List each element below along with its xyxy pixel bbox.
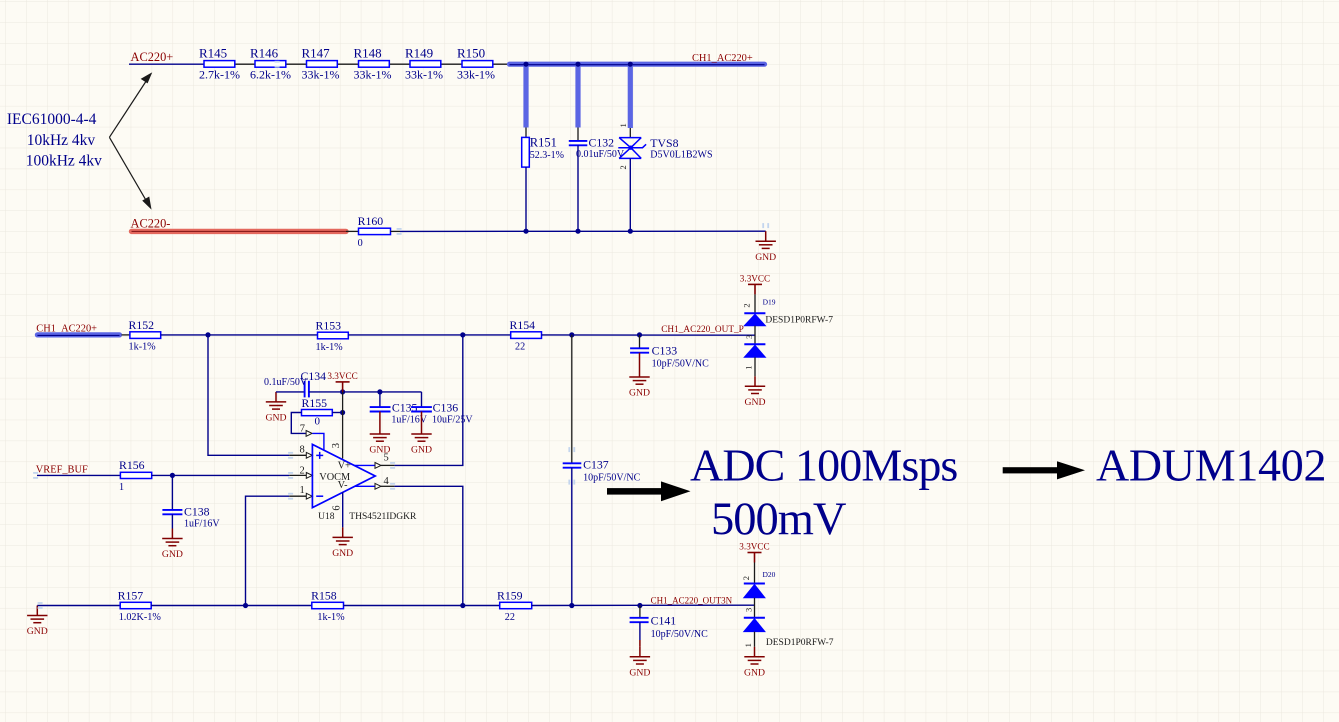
- svg-text:AC220-: AC220-: [131, 217, 171, 231]
- ground GND (C134): [266, 392, 287, 424]
- svg-text:2: 2: [300, 465, 305, 476]
- wire GND to C134: [276, 391, 305, 393]
- svg-text:22: 22: [505, 612, 515, 623]
- resistor R150: [457, 46, 495, 82]
- wire C134 to VCC rail: [309, 391, 422, 393]
- svg-text:10kHz 4kv: 10kHz 4kv: [27, 132, 96, 149]
- junction top rail / R151: [523, 62, 528, 67]
- annotation arrow to ADC: [607, 481, 691, 501]
- svg-text:0.01uF/50V: 0.01uF/50V: [576, 149, 625, 160]
- op-amp U18 triangle: [312, 444, 375, 507]
- arrow to AC220-: [109, 137, 150, 208]
- junction bottom bus / TVS8: [628, 229, 633, 234]
- wire CH1_AC220+ top rail (highlighted): [510, 62, 765, 68]
- wire R151 to bottom bus: [525, 167, 527, 231]
- svg-text:1: 1: [618, 123, 628, 127]
- ground GND (surge bus): [755, 231, 776, 263]
- svg-text:R152: R152: [129, 318, 155, 332]
- wire R154 to D19: [542, 334, 756, 336]
- svg-text:GND: GND: [411, 445, 432, 456]
- svg-text:2: 2: [618, 165, 628, 169]
- svg-text:GND: GND: [629, 388, 650, 399]
- svg-text:CH1_AC220+: CH1_AC220+: [692, 53, 753, 64]
- power 3.3VCC (D20): [739, 542, 769, 563]
- svg-text:4: 4: [384, 476, 390, 487]
- wire thick end to R151: [525, 128, 527, 138]
- svg-text:V+: V+: [338, 460, 351, 471]
- svg-text:52.3-1%: 52.3-1%: [530, 150, 564, 161]
- wire feedback P vertical: [394, 335, 462, 466]
- wire GND to R157: [37, 605, 120, 607]
- resistor R151: [522, 136, 564, 168]
- svg-text:8: 8: [300, 445, 305, 456]
- svg-text:R145: R145: [199, 46, 227, 61]
- wire C133 to GND: [639, 353, 641, 367]
- resistor R145: [199, 46, 240, 82]
- capacitor C133: [630, 348, 649, 352]
- TVS8 labels: [650, 136, 712, 161]
- svg-text:R148: R148: [354, 46, 382, 61]
- wire end mark: [38, 602, 43, 609]
- svg-text:C136: C136: [433, 401, 459, 415]
- svg-text:CH1_AC220_OUT3N: CH1_AC220_OUT3N: [651, 596, 733, 606]
- wire end mark: [762, 223, 769, 228]
- wire C141 to GND (red): [639, 640, 641, 647]
- wire C135 to GND: [379, 412, 381, 425]
- svg-text:GND: GND: [332, 548, 353, 559]
- resistor R155: [302, 396, 333, 428]
- wire TVS8 to bottom bus: [629, 158, 631, 231]
- resistor R152: [129, 318, 161, 353]
- svg-text:6.2k-1%: 6.2k-1%: [250, 67, 291, 81]
- svg-text:0: 0: [358, 238, 363, 249]
- svg-text:R156: R156: [119, 458, 145, 472]
- capacitor C141: [630, 618, 649, 622]
- wire R157 to R158: [151, 605, 312, 607]
- resistor R157: [118, 588, 162, 623]
- capacitor C138 labels: [184, 504, 220, 529]
- wire CH1_AC220+ stub (highlighted): [37, 332, 119, 338]
- capacitor C134 labels: [264, 369, 326, 388]
- wire end mark: [33, 472, 38, 479]
- resistor R148: [354, 46, 392, 82]
- wire junction to C138: [171, 475, 173, 510]
- svg-text:ADUM1402: ADUM1402: [1096, 440, 1326, 491]
- capacitor C141 labels: [651, 613, 709, 640]
- diode D20 upper (to 3.3VCC): [744, 584, 765, 598]
- svg-text:C133: C133: [652, 344, 678, 358]
- wire D19 mid: [754, 326, 756, 344]
- junction bottom bus / C132: [575, 229, 580, 234]
- op-amp minus sign: [316, 495, 323, 497]
- svg-text:D20: D20: [763, 570, 776, 579]
- svg-text:CH1_AC220_OUT_P: CH1_AC220_OUT_P: [661, 325, 744, 335]
- junction pin1 tap: [243, 603, 248, 608]
- svg-text:2: 2: [741, 576, 751, 580]
- svg-text:C138: C138: [184, 504, 210, 518]
- wire tap to op-amp pin 8: [208, 335, 289, 455]
- svg-text:IEC61000-4-4: IEC61000-4-4: [7, 111, 97, 128]
- op-amp plus sign: [316, 452, 323, 459]
- diode D19 lower (from GND): [744, 344, 765, 357]
- svg-text:33k-1%: 33k-1%: [302, 67, 340, 81]
- svg-text:R149: R149: [405, 46, 433, 61]
- junction top rail / C132: [575, 62, 580, 67]
- wire pin 6 to GND: [342, 492, 344, 527]
- pin 2 stub: [289, 474, 306, 476]
- ground GND (C135): [369, 424, 390, 456]
- svg-text:1: 1: [300, 485, 305, 496]
- junction R154/C137: [569, 332, 574, 337]
- svg-text:GND: GND: [266, 413, 287, 424]
- junction top rail / TVS8: [628, 62, 633, 67]
- wire end mark: [288, 452, 293, 459]
- capacitor C132 labels: [576, 135, 625, 160]
- svg-text:1: 1: [744, 365, 754, 369]
- svg-text:D5V0L1B2WS: D5V0L1B2WS: [650, 150, 712, 161]
- capacitor C133 labels: [652, 344, 710, 370]
- svg-text:3.3VCC: 3.3VCC: [327, 371, 357, 381]
- svg-text:VREF_BUF: VREF_BUF: [36, 464, 88, 475]
- junction R156/C138: [170, 473, 175, 478]
- wire R158 to R159: [344, 605, 500, 607]
- svg-text:2: 2: [742, 303, 752, 307]
- svg-text:DESD1P0RFW-7: DESD1P0RFW-7: [766, 638, 834, 648]
- wire AC220- to R160: [346, 230, 359, 232]
- resistor R149: [405, 46, 443, 82]
- wire C137 to bottom row: [571, 468, 573, 606]
- junction VCC/op-amp: [340, 389, 345, 394]
- junction C141 tap: [637, 603, 642, 608]
- junction C137 bottom: [569, 603, 574, 608]
- pin 7 wire (blue): [312, 433, 324, 450]
- wire thick end to C132: [577, 128, 579, 141]
- pin 4 arrow: [375, 483, 381, 489]
- wire end mark: [568, 447, 575, 452]
- wire VCC to D19: [754, 294, 756, 313]
- wire R156 to pin 2: [152, 474, 290, 476]
- svg-text:GND: GND: [745, 397, 766, 408]
- svg-text:1: 1: [119, 482, 124, 493]
- ground GND (C133): [629, 367, 650, 399]
- junction R155/pin3 line: [340, 410, 345, 415]
- pin 1 stub: [289, 495, 306, 497]
- pin 4 wire (blue): [355, 485, 375, 487]
- capacitor C135 labels: [391, 401, 427, 426]
- svg-text:100kHz 4kv: 100kHz 4kv: [26, 153, 102, 170]
- wire C132 to bottom bus: [577, 145, 579, 231]
- svg-text:33k-1%: 33k-1%: [354, 67, 392, 81]
- junction VCC/C135: [377, 389, 382, 394]
- pin 8 stub: [289, 454, 306, 456]
- wire rail to C135: [379, 392, 381, 407]
- wire R159 to D20: [532, 604, 755, 606]
- svg-text:R147: R147: [302, 46, 331, 61]
- capacitor C136 labels: [432, 401, 473, 426]
- capacitor C135: [370, 407, 391, 411]
- wire end mark: [288, 472, 293, 479]
- svg-text:GND: GND: [755, 252, 776, 263]
- svg-text:THS4521IDGKR: THS4521IDGKR: [349, 512, 417, 522]
- ground GND (op-amp pin 6): [332, 527, 353, 559]
- resistor R156: [119, 458, 152, 493]
- wire R154 tap down to C137: [571, 335, 573, 463]
- wire end mark: [390, 483, 395, 490]
- svg-text:10uF/25V: 10uF/25V: [432, 414, 473, 425]
- wire rail to C136: [421, 392, 423, 407]
- svg-text:1uF/16V: 1uF/16V: [391, 414, 427, 425]
- power 3.3VCC (op-amp): [327, 371, 357, 392]
- svg-text:C141: C141: [651, 613, 677, 627]
- svg-text:R153: R153: [316, 318, 342, 332]
- annotation arrow to ADUM1402: [1003, 461, 1085, 479]
- wire VCC down to pin 3: [342, 392, 344, 459]
- svg-text:3: 3: [744, 608, 754, 612]
- svg-text:1: 1: [743, 643, 753, 647]
- wire D20 mid: [754, 598, 756, 618]
- svg-text:C137: C137: [583, 458, 609, 472]
- svg-text:R157: R157: [118, 588, 144, 602]
- wire end mark: [397, 228, 402, 235]
- svg-text:1.02K-1%: 1.02K-1%: [119, 612, 162, 623]
- capacitor C132: [569, 141, 588, 145]
- svg-text:R155: R155: [302, 396, 328, 410]
- svg-text:10pF/50V/NC: 10pF/50V/NC: [651, 629, 709, 640]
- pin 8 arrow: [306, 452, 312, 458]
- svg-text:6: 6: [331, 505, 342, 510]
- wire R153 to R154: [348, 334, 510, 336]
- svg-text:GND: GND: [27, 626, 48, 637]
- wire OUT_N to C141: [639, 606, 641, 618]
- diode D19 upper (to 3.3VCC): [744, 313, 765, 326]
- capacitor C137 labels: [583, 458, 641, 484]
- wire VREF_BUF to R156: [37, 474, 120, 476]
- junction R152/pin8 tap: [205, 332, 210, 337]
- wire end mark: [288, 493, 293, 500]
- svg-text:TVS8: TVS8: [650, 136, 678, 150]
- pin 1 arrow: [306, 493, 312, 499]
- wire end mark: [390, 462, 395, 469]
- svg-text:1k-1%: 1k-1%: [129, 342, 157, 353]
- wire C138 to GND: [171, 514, 173, 528]
- svg-text:1k-1%: 1k-1%: [316, 342, 344, 353]
- ground GND (D19): [745, 376, 766, 408]
- wire end mark: [568, 480, 575, 485]
- ground GND (C138): [162, 529, 183, 561]
- resistor R158: [311, 588, 345, 623]
- svg-text:D19: D19: [763, 297, 776, 306]
- svg-text:22: 22: [515, 342, 525, 353]
- wire OUT_P to C133: [639, 335, 641, 348]
- junction C133 tap: [637, 332, 642, 337]
- wire C136 to GND: [421, 412, 423, 425]
- svg-text:GND: GND: [744, 667, 765, 678]
- svg-text:GND: GND: [162, 549, 183, 560]
- svg-text:R150: R150: [457, 46, 485, 61]
- svg-text:ADC 100Msps: ADC 100Msps: [690, 440, 957, 491]
- svg-text:10pF/50V/NC: 10pF/50V/NC: [652, 358, 710, 369]
- TVS diode TVS8 symbol: [618, 138, 646, 159]
- junction feedback N: [460, 603, 465, 608]
- wire R160 to GND bus: [400, 230, 766, 232]
- ground GND (C136): [411, 424, 432, 456]
- pin 5 wire (blue): [354, 464, 375, 466]
- svg-text:GND: GND: [629, 667, 650, 678]
- junction R153/feedback P: [460, 332, 465, 337]
- ground GND (R157 input): [27, 606, 48, 638]
- svg-text:1k-1%: 1k-1%: [317, 612, 345, 623]
- diode D20 lower (from GND): [744, 618, 765, 632]
- wire drop to TVS8 (highlighted): [628, 64, 633, 128]
- svg-text:R151: R151: [530, 136, 557, 150]
- pin 5 arrow: [375, 463, 381, 469]
- svg-text:1uF/16V: 1uF/16V: [184, 519, 220, 530]
- wire R155 left to pin 7: [291, 413, 306, 434]
- resistor R159: [497, 588, 532, 623]
- wire bottom row to pin 1: [246, 496, 290, 605]
- svg-text:U18: U18: [318, 512, 335, 522]
- wire R145..R150 chain: [235, 63, 508, 65]
- svg-text:3: 3: [744, 335, 754, 339]
- wire D20 to GND: [754, 632, 756, 647]
- wire AC220- (highlighted red): [132, 229, 347, 234]
- svg-text:2.7k-1%: 2.7k-1%: [199, 67, 240, 81]
- svg-text:10pF/50V/NC: 10pF/50V/NC: [583, 472, 641, 483]
- arrow to AC220+: [109, 74, 151, 138]
- wire R152 to R153: [161, 334, 318, 336]
- wire D19 to GND: [754, 357, 756, 376]
- wire feedback N vertical: [394, 486, 462, 605]
- svg-text:R160: R160: [358, 214, 384, 228]
- resistor R147: [302, 46, 340, 82]
- svg-text:R154: R154: [510, 318, 536, 332]
- pin 7 arrow: [306, 431, 312, 437]
- junction bottom bus / R151: [523, 229, 528, 234]
- capacitor C134: [305, 381, 309, 398]
- svg-text:5: 5: [384, 452, 389, 463]
- svg-text:AC220+: AC220+: [131, 50, 174, 64]
- wire end mark: [275, 61, 280, 68]
- resistor R160: [358, 214, 391, 249]
- svg-text:0.1uF/50V: 0.1uF/50V: [264, 377, 308, 388]
- svg-text:7: 7: [300, 423, 305, 434]
- resistor R153: [316, 318, 349, 353]
- svg-text:33k-1%: 33k-1%: [457, 67, 495, 81]
- wire drop to R151 (highlighted): [523, 64, 528, 127]
- capacitor C137: [563, 463, 582, 467]
- power 3.3VCC (D19): [740, 273, 770, 294]
- ground GND (D20): [744, 647, 765, 679]
- svg-text:V-: V-: [338, 480, 348, 491]
- svg-text:R146: R146: [250, 46, 279, 61]
- wire drop to C132 (highlighted): [575, 64, 580, 127]
- resistor R146: [250, 46, 291, 82]
- svg-text:0: 0: [315, 415, 321, 427]
- wire AC220+ to R145: [129, 63, 204, 65]
- svg-text:DESD1P0RFW-7: DESD1P0RFW-7: [765, 316, 833, 326]
- pin 2 arrow: [306, 473, 312, 479]
- svg-text:500mV: 500mV: [711, 494, 847, 545]
- wire to R152: [122, 334, 130, 336]
- pin 5 stub: [381, 464, 395, 466]
- ground GND (C141): [629, 647, 650, 679]
- svg-text:C132: C132: [589, 135, 615, 149]
- capacitor C138: [162, 510, 182, 514]
- svg-text:R158: R158: [311, 588, 337, 602]
- svg-text:3.3VCC: 3.3VCC: [740, 273, 770, 283]
- pin 4 stub: [381, 485, 395, 487]
- wire R160 stub: [391, 230, 401, 232]
- wire thick end to TVS8: [629, 128, 631, 138]
- svg-text:33k-1%: 33k-1%: [405, 67, 443, 81]
- wire R155 right to VCC: [332, 412, 342, 414]
- capacitor C136: [411, 407, 432, 411]
- svg-text:3: 3: [331, 443, 342, 448]
- svg-text:R159: R159: [497, 588, 523, 602]
- resistor R154: [510, 318, 542, 353]
- wire C141 to GND: [639, 622, 641, 640]
- wire VCC to D20: [754, 563, 756, 584]
